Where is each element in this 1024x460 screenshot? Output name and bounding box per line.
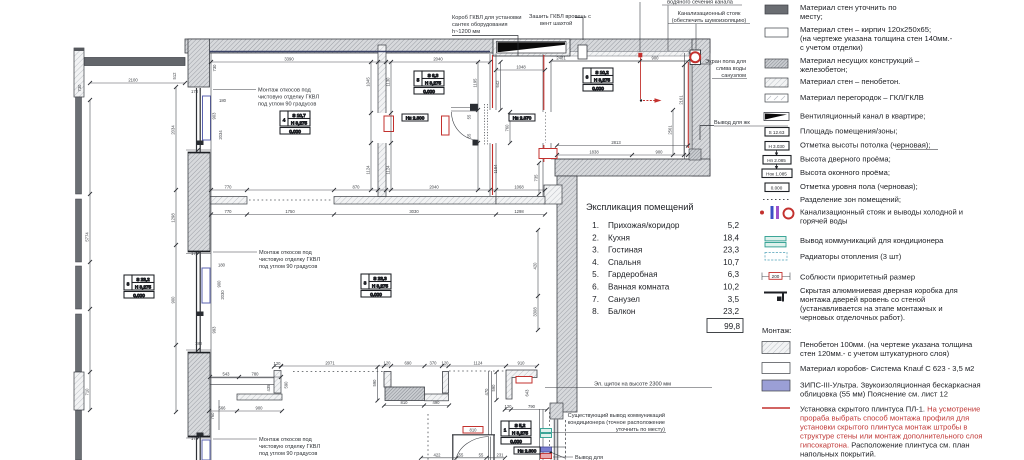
svg-text:435: 435 <box>266 384 271 392</box>
svg-text:Канализационный стояк и выводы: Канализационный стояк и выводы холодной … <box>800 208 963 217</box>
legend item 11 symbol: 0.000 box <box>765 183 789 192</box>
window: balcony left glazing strip <box>76 97 82 460</box>
dimension: stub 566/900 <box>209 410 282 412</box>
door height label Hp 2.370 <box>509 114 535 121</box>
underline for chernovaya in item 8 <box>896 149 938 151</box>
legend item 17 symbol: hidden door frame <box>764 293 787 302</box>
svg-text:6,3: 6,3 <box>728 270 740 279</box>
wall: stub end post (hatched) <box>274 371 281 394</box>
svg-text:780: 780 <box>252 372 260 377</box>
svg-text:стен 120мм.- с учетом штукатур: стен 120мм.- с учетом штукатурного слоя) <box>800 349 950 358</box>
svg-text:Гостиная: Гостиная <box>608 246 642 255</box>
svg-text:3,5: 3,5 <box>728 295 740 304</box>
svg-text:2561: 2561 <box>668 125 673 135</box>
vent wedge (black) <box>498 42 566 52</box>
legend item 22 symbol: red skirting line <box>762 407 790 409</box>
dimension: balcony inner vertical <box>175 87 177 412</box>
dimension: below vent box <box>496 69 545 71</box>
dimension: vertical chains near partition walls <box>370 62 372 190</box>
red priority box on L-structure <box>516 377 532 384</box>
legend item 19 symbol: foam concrete 100mm <box>762 342 790 354</box>
svg-text:Материал стен уточнить по: Материал стен уточнить по <box>800 3 897 12</box>
svg-text:10,7: 10,7 <box>723 258 739 267</box>
room label 6 bathroom <box>583 68 613 91</box>
svg-text:1838: 1838 <box>589 150 599 155</box>
svg-text:2161: 2161 <box>679 95 684 105</box>
legend item 12 symbol: dotted line <box>763 199 791 201</box>
vent box in top wall <box>493 39 570 56</box>
red leader to stack <box>641 58 662 103</box>
svg-text:ЗИПС-III-Ультра. Звукоизоляцио: ЗИПС-III-Ультра. Звукоизоляционная беска… <box>800 381 981 390</box>
svg-text:642: 642 <box>495 80 500 88</box>
svg-text:120: 120 <box>442 361 450 366</box>
svg-text:2040: 2040 <box>433 57 443 62</box>
svg-text:470: 470 <box>484 388 489 396</box>
svg-text:0,000: 0,000 <box>423 89 435 94</box>
wall: top band of apartment (reinforced concrete) <box>185 39 710 53</box>
svg-text:730: 730 <box>212 64 217 72</box>
svg-text:2030: 2030 <box>220 290 225 300</box>
svg-text:1068: 1068 <box>514 185 524 190</box>
svg-text:55: 55 <box>459 452 464 457</box>
legend item 14 symbol: aircon outlet <box>765 237 786 241</box>
svg-text:420: 420 <box>533 262 538 270</box>
svg-text:Отметка высоты потолка (чернов: Отметка высоты потолка (черновая); <box>800 141 931 150</box>
dimension: living room right verticals <box>537 230 539 330</box>
svg-text:Монтаж откосов под: Монтаж откосов под <box>259 250 313 256</box>
svg-text:900: 900 <box>656 150 664 155</box>
svg-text:слива воды: слива воды <box>716 66 746 72</box>
annotation: montazh otkosov (bottom window) <box>213 437 320 457</box>
svg-text:S 23,2: S 23,2 <box>136 277 150 282</box>
svg-text:кондиционера (точное расположе: кондиционера (точное расположение <box>568 420 665 426</box>
svg-text:с учетом отделки): с учетом отделки) <box>800 43 863 52</box>
dimension: bathroom vertical <box>683 65 685 155</box>
svg-text:4: 4 <box>283 118 286 123</box>
door D1 wardrobe: leaf and arc <box>451 108 479 141</box>
svg-text:Вывод для: Вывод для <box>575 455 603 460</box>
svg-text:Высота дверного проёма;: Высота дверного проёма; <box>800 155 891 164</box>
red box bathroom SW corner <box>539 149 557 159</box>
svg-text:напольных покрытий.: напольных покрытий. <box>800 450 876 459</box>
svg-text:месту;: месту; <box>800 12 823 21</box>
svg-text:55: 55 <box>467 114 472 119</box>
svg-text:горячей воды: горячей воды <box>800 217 848 226</box>
window mullion blocks <box>197 141 204 146</box>
kitchen U-structure light bar <box>425 394 449 401</box>
small ticks near piers <box>186 150 211 438</box>
svg-text:1130: 1130 <box>386 77 391 87</box>
legend item 4 symbol: foam concrete <box>765 78 788 87</box>
svg-text:Радиаторы отопления (3 шт): Радиаторы отопления (3 шт) <box>800 252 902 261</box>
wall: right wall lower segment <box>557 176 577 412</box>
svg-text:370: 370 <box>430 361 438 366</box>
svg-text:сантех оборудования: сантех оборудования <box>452 22 508 28</box>
dimension: stub 120 <box>274 366 281 368</box>
explication total box <box>707 319 743 333</box>
inner face line of top wall (dark) <box>210 51 491 53</box>
svg-text:2071: 2071 <box>325 361 335 366</box>
legend item 1 symbol: dark fill <box>765 5 788 14</box>
svg-text:0,000: 0,000 <box>289 129 301 134</box>
svg-text:1750: 1750 <box>285 209 295 214</box>
svg-text:чистовую отделку ГКВЛ: чистовую отделку ГКВЛ <box>258 95 319 101</box>
svg-text:2813: 2813 <box>611 140 621 145</box>
hall L-structure <box>506 370 537 399</box>
red dot on top wall <box>638 53 642 58</box>
svg-text:790: 790 <box>528 404 536 409</box>
svg-text:Санузел: Санузел <box>608 295 640 304</box>
legend item 3 symbol: reinforced concrete <box>765 59 788 68</box>
svg-text:180: 180 <box>219 98 227 103</box>
svg-text:10,2: 10,2 <box>723 283 739 292</box>
svg-text:1: 1 <box>504 428 507 433</box>
svg-text:H 3,275: H 3,275 <box>372 283 389 288</box>
svg-text:Отметка уровня пола (черновая): Отметка уровня пола (черновая); <box>800 182 918 191</box>
svg-text:55: 55 <box>479 452 484 457</box>
partition near air-con outlet <box>540 409 544 460</box>
svg-text:566: 566 <box>219 406 227 411</box>
dimension: balcony verticals <box>89 100 91 410</box>
svg-text:870: 870 <box>353 185 361 190</box>
pier end caps <box>188 153 210 437</box>
legend item 8 symbol: H box <box>765 142 789 151</box>
svg-text:23,2: 23,2 <box>723 307 739 316</box>
legend item 2 symbol: brick <box>765 28 788 37</box>
legend item 5 symbol: GKL partition <box>765 94 788 102</box>
svg-text:0.000: 0.000 <box>771 185 783 190</box>
svg-text:Скрытая алюминиевая дверная ко: Скрытая алюминиевая дверная коробка для <box>800 286 958 295</box>
partition kitchen/hall (thin) <box>489 371 492 435</box>
svg-text:H 3,275: H 3,275 <box>594 77 611 82</box>
svg-text:под углом 90 градусов: под углом 90 градусов <box>259 264 317 270</box>
legend item 21 symbol: ZIPS purple <box>762 380 790 391</box>
svg-text:422: 422 <box>434 452 442 457</box>
kitchen U-structure right pier <box>443 372 449 394</box>
svg-text:900: 900 <box>217 280 222 288</box>
svg-text:18,4: 18,4 <box>723 233 739 242</box>
svg-text:910: 910 <box>518 361 526 366</box>
svg-text:Кухня: Кухня <box>608 233 630 242</box>
svg-text:770: 770 <box>225 185 233 190</box>
svg-text:Канализационный стояк: Канализационный стояк <box>678 10 741 17</box>
dimension: under hall L <box>505 409 547 411</box>
dimension: stub 543/780 <box>210 376 281 378</box>
wall: vertical partition wardrobe/hall <box>490 54 496 196</box>
svg-text:Монтаж:: Монтаж: <box>762 326 792 335</box>
svg-text:H 3,275: H 3,275 <box>425 80 442 85</box>
svg-text:Вывод для жк: Вывод для жк <box>714 120 750 126</box>
annotation: existing aircon outlet <box>552 412 666 433</box>
svg-text:5: 5 <box>417 78 420 83</box>
svg-text:2040: 2040 <box>429 185 439 190</box>
svg-text:Hок 1.085: Hок 1.085 <box>766 171 787 176</box>
svg-text:Соблюсти приоритетный размер: Соблюсти приоритетный размер <box>800 273 915 282</box>
svg-text:5.: 5. <box>592 270 599 279</box>
svg-text:590: 590 <box>284 381 289 389</box>
svg-text:3030: 3030 <box>409 209 419 214</box>
wall: interior horizontal wall segment B <box>334 197 496 205</box>
svg-text:180: 180 <box>218 263 226 268</box>
wall: stub from pier 2 (thin) <box>210 378 277 385</box>
svg-text:Короб ГКВЛ для установки: Короб ГКВЛ для установки <box>452 15 522 21</box>
svg-text:810: 810 <box>470 428 478 433</box>
wall: vertical partition bedroom/wardrobe <box>378 45 386 197</box>
red priority box near door D1 <box>442 116 450 135</box>
svg-text:3390: 3390 <box>284 57 294 62</box>
dimension: entrance small chain <box>421 457 505 459</box>
svg-text:690: 690 <box>405 361 413 366</box>
annotation: electric panel <box>545 382 712 388</box>
svg-text:чистовую отделку ГКВЛ: чистовую отделку ГКВЛ <box>259 257 320 263</box>
svg-text:2100: 2100 <box>128 78 138 83</box>
annotation: ekran pola <box>700 59 747 79</box>
room label 8 balcony <box>124 275 154 298</box>
svg-text:1124: 1124 <box>473 361 483 366</box>
room label 4 bedroom <box>280 111 310 134</box>
svg-text:черновых отделочных работ).: черновых отделочных работ). <box>800 313 905 322</box>
svg-text:6.: 6. <box>592 283 599 292</box>
svg-text:Прихожая/коридор: Прихожая/коридор <box>608 221 680 230</box>
svg-text:Экспликация помещений: Экспликация помещений <box>586 202 693 212</box>
svg-text:под углом 90 градусов: под углом 90 градусов <box>259 451 317 457</box>
svg-text:H 3.030: H 3.030 <box>768 144 785 149</box>
wall: balcony left pier (hatched) <box>74 48 84 97</box>
svg-text:железобетон;: железобетон; <box>800 65 847 74</box>
svg-text:санузлом: санузлом <box>721 73 746 79</box>
door opening in partition <box>378 113 387 143</box>
svg-text:1124: 1124 <box>366 165 371 175</box>
wall: vertical partition hall/bathroom <box>543 54 551 196</box>
svg-text:7.: 7. <box>592 295 599 304</box>
svg-text:установки скрытого плинтуса мо: установки скрытого плинтуса монтаж штроб… <box>800 423 967 432</box>
wall: interior horizontal wall segment C <box>496 197 545 205</box>
wall: balcony left hatched block <box>74 372 84 410</box>
door height label Hp 2.300 <box>402 114 428 121</box>
wall: top-left corner block <box>188 39 210 87</box>
svg-text:1045: 1045 <box>366 77 371 87</box>
svg-text:903: 903 <box>212 112 217 120</box>
svg-text:590: 590 <box>372 379 377 387</box>
cap on balcony pier <box>74 48 84 51</box>
svg-text:монтажа дверей вровень со стен: монтажа дверей вровень со стеной <box>800 295 925 304</box>
svg-text:120: 120 <box>384 361 392 366</box>
dimension: hall chain <box>211 214 545 216</box>
svg-text:S 5,2: S 5,2 <box>515 423 526 428</box>
wall: top band right thicker part <box>551 52 689 57</box>
svg-text:810: 810 <box>401 400 409 405</box>
skirting red line on partition <box>492 55 494 195</box>
svg-text:гипсокартона. Расположение пл: гипсокартона. Расположение плинтуса см. … <box>800 441 970 450</box>
white service box in top band <box>578 45 587 59</box>
svg-text:вент шахтой: вент шахтой <box>540 20 572 27</box>
svg-text:S 23,3: S 23,3 <box>373 276 387 281</box>
wall: joint block below bathroom <box>544 185 562 204</box>
svg-text:993: 993 <box>212 326 217 334</box>
svg-text:Материал коробов- Система Knau: Материал коробов- Система Knauf C 623 - … <box>800 364 974 373</box>
dimension: under kitchen U <box>384 405 449 407</box>
svg-text:Монтаж откосов под: Монтаж откосов под <box>259 437 313 443</box>
annotation: vyvod dlya bottom <box>553 455 603 460</box>
svg-text:590: 590 <box>491 384 496 392</box>
svg-text:900: 900 <box>652 56 660 61</box>
svg-text:173: 173 <box>191 89 199 94</box>
svg-text:Hп 2.085: Hп 2.085 <box>767 158 786 163</box>
svg-text:180: 180 <box>195 341 203 346</box>
svg-text:1048: 1048 <box>516 65 526 70</box>
wall: interior horizontal wall segment A <box>209 197 247 205</box>
red priority box entrance 810 <box>463 427 483 434</box>
svg-text:120: 120 <box>274 361 282 366</box>
svg-text:Hп 2.300: Hп 2.300 <box>406 115 425 120</box>
svg-text:(на чертеже указана толщина ст: (на чертеже указана толщина стен 140мм.- <box>800 34 953 43</box>
svg-text:770: 770 <box>225 209 233 214</box>
svg-text:Эл. щиток на высоте 2300 мм: Эл. щиток на высоте 2300 мм <box>594 382 671 388</box>
wall: left wall pier 2 (hatched) <box>188 352 210 437</box>
svg-text:Вывод коммуникаций для кондици: Вывод коммуникаций для кондиционера <box>800 236 944 245</box>
legend item 16 symbol: priority dim <box>762 273 790 281</box>
svg-text:543: 543 <box>223 372 231 377</box>
legend item 9 symbol: Hp box <box>763 156 791 165</box>
svg-text:прораба выбрать способ монтажа: прораба выбрать способ монтажа профиля д… <box>800 414 969 423</box>
svg-text:Материал несущих конструкций –: Материал несущих конструкций – <box>800 56 920 65</box>
zone division dotted vertical <box>427 414 429 460</box>
svg-text:900: 900 <box>256 406 264 411</box>
bathroom inner outline <box>551 53 690 159</box>
wall: balcony top band (dark) <box>84 58 185 66</box>
svg-text:5774: 5774 <box>85 232 90 242</box>
svg-text:900: 900 <box>171 296 176 304</box>
svg-text:760: 760 <box>505 124 510 132</box>
svg-text:Hп 2.370: Hп 2.370 <box>513 115 532 120</box>
svg-text:Пенобетон 100мм. (на чертеже у: Пенобетон 100мм. (на чертеже указана тол… <box>800 340 973 349</box>
svg-text:под углом 90 градусов: под углом 90 градусов <box>258 102 316 108</box>
window W2 left wall <box>197 252 201 352</box>
svg-text:Монтаж откосов под: Монтаж откосов под <box>258 88 312 94</box>
outlet blue box <box>541 447 552 452</box>
inner face line left wall <box>210 53 212 460</box>
dark block bathroom SE corner <box>689 149 701 160</box>
legend item 10 symbol: Hok box <box>762 169 792 178</box>
annotation: montazh otkosov (top window) <box>213 88 319 108</box>
svg-text:1298: 1298 <box>171 213 176 223</box>
svg-text:водяного сечения канала: водяного сечения канала <box>667 0 734 6</box>
legend item 20 symbol: korob <box>762 363 790 374</box>
svg-text:(устанавливается на этапе монт: (устанавливается на этапе монтажных и <box>800 304 943 313</box>
svg-text:200: 200 <box>772 274 780 279</box>
dimension: bedroom bottom chain <box>211 189 545 191</box>
annotation: zashit GKVL <box>529 14 591 40</box>
window W1 left wall <box>197 88 201 152</box>
svg-text:2481: 2481 <box>556 56 566 61</box>
svg-text:облицовка (55 мм) Пояснение см: облицовка (55 мм) Пояснение см. лист 12 <box>800 390 948 399</box>
room label 3 living <box>361 274 391 297</box>
svg-text:1124: 1124 <box>386 165 391 175</box>
dimension: bathroom bottom <box>557 154 688 156</box>
svg-text:4.: 4. <box>592 258 599 267</box>
annotation: montazh otkosov (middle window) <box>213 250 320 270</box>
dimension: bathroom top <box>551 60 688 62</box>
svg-text:структуре стены или монтаж доп: структуре стены или монтаж дополнительно… <box>800 432 983 441</box>
svg-text:3: 3 <box>364 281 367 286</box>
svg-text:1.: 1. <box>592 221 599 230</box>
annotation: top cut text <box>640 0 742 52</box>
dimension: below bathroom vertical <box>538 163 540 194</box>
legend item 7 symbol: S box <box>765 128 789 137</box>
red priority box in bedroom partition opening <box>384 116 394 132</box>
wall: left wall pier 1 (hatched) <box>188 152 210 252</box>
svg-text:(обеспечить шумоизоляцию): (обеспечить шумоизоляцию) <box>672 18 747 24</box>
svg-text:Разделение зон помещений;: Разделение зон помещений; <box>800 195 901 204</box>
door opening dotted line in hallway wall <box>249 199 332 201</box>
window W3 left wall (cut) <box>197 437 201 460</box>
svg-text:735: 735 <box>534 174 539 182</box>
outlet red box <box>541 454 552 459</box>
svg-text:231: 231 <box>497 452 505 457</box>
kitchen U-structure bottom bar (dense hatch) <box>385 387 425 401</box>
dimension: bedroom top 3390 <box>211 61 490 63</box>
annotation: vyvod dlya zhk <box>700 120 788 140</box>
svg-text:Материал стен – пенобетон.: Материал стен – пенобетон. <box>800 77 900 86</box>
svg-text:643: 643 <box>525 389 530 397</box>
svg-text:55: 55 <box>467 133 472 138</box>
notch for stack <box>690 50 701 65</box>
kitchen U-structure left pier <box>384 372 391 388</box>
svg-text:8: 8 <box>127 282 130 287</box>
svg-text:0,000: 0,000 <box>592 86 604 91</box>
svg-text:H 3,275: H 3,275 <box>291 120 308 125</box>
dimension: kitchen zone chain <box>281 365 537 367</box>
svg-text:5,2: 5,2 <box>728 221 740 230</box>
svg-text:1298: 1298 <box>514 209 524 214</box>
svg-text:0,000: 0,000 <box>370 292 382 297</box>
svg-text:Спальня: Спальня <box>608 258 641 267</box>
zone division dotted line living/kitchen <box>293 371 384 373</box>
svg-text:Вентиляционный канал в квартир: Вентиляционный канал в квартире; <box>800 112 925 121</box>
svg-text:Существующий вывод коммуникаци: Существующий вывод коммуникаций <box>568 412 665 419</box>
svg-text:Высота оконного проёма;: Высота оконного проёма; <box>800 168 890 177</box>
svg-text:3308: 3308 <box>533 307 538 317</box>
svg-text:чистовую отделку ГКВЛ: чистовую отделку ГКВЛ <box>259 444 320 450</box>
zone division dotted line kitchen/hall <box>449 370 506 372</box>
legend item 15 symbol: radiator <box>765 253 787 261</box>
svg-text:6: 6 <box>586 75 589 80</box>
svg-text:490: 490 <box>433 400 441 405</box>
legend item 6 symbol: vent wedge <box>764 113 789 121</box>
svg-text:Зашить ГКВЛ вровень с: Зашить ГКВЛ вровень с <box>529 14 591 20</box>
door D2 entrance: frames, rail and arc <box>452 435 495 460</box>
dimension: hall verticals <box>496 372 498 400</box>
svg-text:1195: 1195 <box>473 78 478 88</box>
legend item 13 symbol: stack + water <box>760 211 764 215</box>
wall: right wall of bathroom <box>692 39 710 176</box>
svg-text:Материал стен – кирпич 120х250: Материал стен – кирпич 120х250х65; <box>800 25 931 34</box>
skirting red line bathroom right wall <box>687 62 689 148</box>
svg-text:1154: 1154 <box>493 164 498 174</box>
svg-text:H 3,275: H 3,275 <box>512 430 529 435</box>
svg-text:710: 710 <box>85 388 90 396</box>
svg-text:2.: 2. <box>592 233 599 242</box>
room label 1 hall <box>501 421 531 444</box>
svg-text:760: 760 <box>210 412 215 420</box>
svg-text:8.: 8. <box>592 307 599 316</box>
door height label Hp 2.300 hall <box>514 447 540 454</box>
canalization stack circle <box>690 52 700 62</box>
svg-text:512: 512 <box>172 72 177 80</box>
svg-text:Ванная комната: Ванная комната <box>608 283 670 292</box>
svg-text:Площадь помещения/зоны;: Площадь помещения/зоны; <box>800 127 897 136</box>
svg-text:Материал перегородок – ГКЛ/ГКЛ: Материал перегородок – ГКЛ/ГКЛВ <box>800 93 924 102</box>
